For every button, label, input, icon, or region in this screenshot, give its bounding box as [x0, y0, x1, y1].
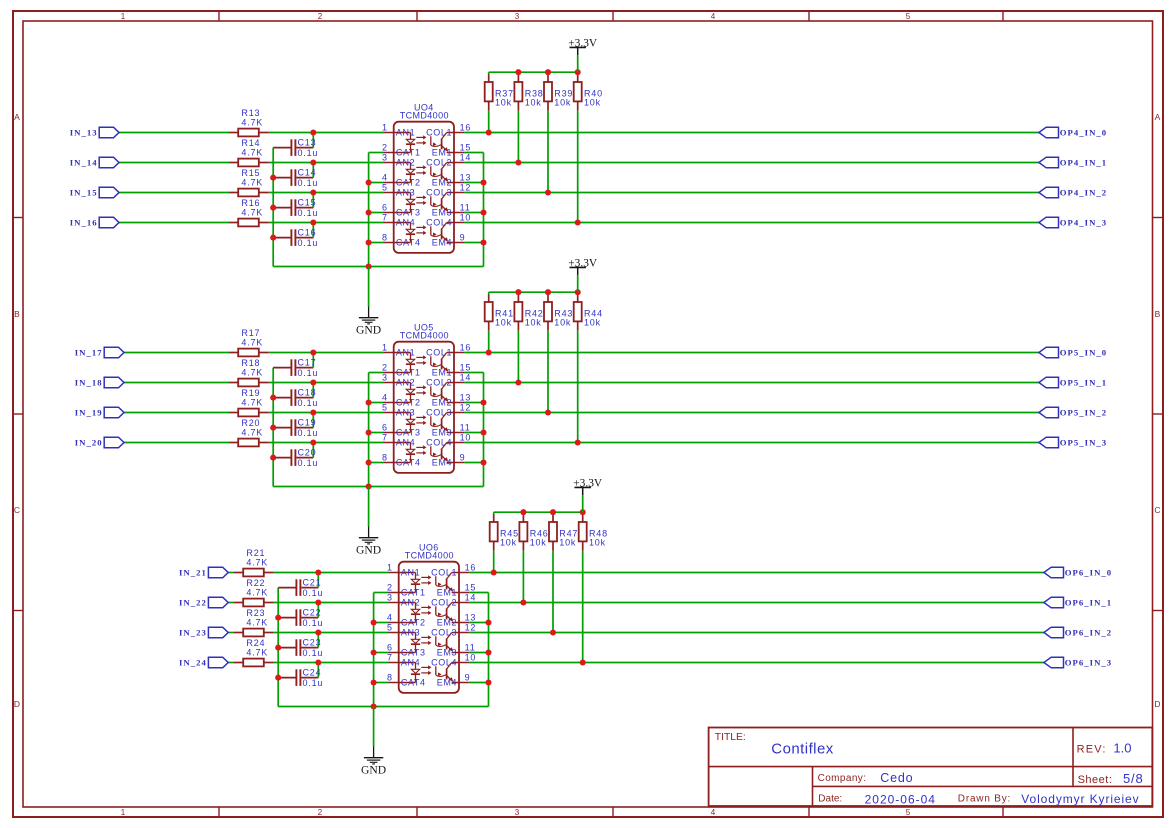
svg-text:1: 1 — [121, 808, 126, 817]
svg-text:CAT4: CAT4 — [396, 238, 421, 248]
svg-text:CAT3: CAT3 — [396, 208, 421, 218]
svg-text:EM1: EM1 — [432, 368, 452, 378]
svg-text:9: 9 — [460, 232, 466, 242]
svg-text:OP6_IN_0: OP6_IN_0 — [1065, 568, 1113, 578]
svg-text:IN_15: IN_15 — [70, 188, 98, 198]
svg-text:12: 12 — [465, 622, 477, 632]
svg-text:IN_23: IN_23 — [179, 628, 207, 638]
svg-text:4.7K: 4.7K — [246, 587, 268, 597]
svg-text:C: C — [1154, 505, 1160, 515]
svg-text:7: 7 — [382, 432, 388, 442]
svg-text:6: 6 — [382, 202, 388, 212]
svg-text:10k: 10k — [584, 318, 601, 328]
svg-text:5/8: 5/8 — [1123, 771, 1143, 786]
svg-text:0.1u: 0.1u — [303, 678, 324, 688]
svg-text:CAT1: CAT1 — [396, 148, 421, 158]
svg-text:AN4: AN4 — [396, 218, 415, 228]
svg-text:4: 4 — [382, 172, 388, 182]
svg-text:Sheet:: Sheet: — [1078, 774, 1113, 786]
svg-text:CAT3: CAT3 — [401, 648, 426, 658]
svg-text:4.7K: 4.7K — [241, 427, 263, 437]
svg-text:10k: 10k — [559, 538, 576, 548]
svg-text:OP5_IN_2: OP5_IN_2 — [1060, 408, 1108, 418]
svg-text:CAT1: CAT1 — [396, 368, 421, 378]
svg-text:4.7K: 4.7K — [246, 557, 268, 567]
svg-text:16: 16 — [460, 122, 472, 132]
svg-text:4: 4 — [711, 808, 716, 817]
svg-text:10k: 10k — [500, 538, 517, 548]
svg-text:CAT4: CAT4 — [401, 678, 426, 688]
svg-text:0.1u: 0.1u — [298, 238, 319, 248]
svg-text:COL3: COL3 — [426, 408, 452, 418]
svg-text:11: 11 — [465, 642, 476, 652]
svg-text:13: 13 — [465, 612, 477, 622]
svg-text:EM3: EM3 — [437, 648, 457, 658]
svg-text:REV:: REV: — [1077, 744, 1107, 756]
svg-text:4.7K: 4.7K — [241, 367, 263, 377]
svg-text:14: 14 — [465, 592, 477, 602]
svg-text:0.1u: 0.1u — [298, 148, 319, 158]
svg-text:10k: 10k — [589, 538, 606, 548]
svg-text:IN_16: IN_16 — [70, 218, 98, 228]
svg-text:COL2: COL2 — [426, 158, 452, 168]
svg-text:IN_17: IN_17 — [75, 348, 103, 358]
svg-text:IN_24: IN_24 — [179, 658, 207, 668]
svg-text:10k: 10k — [530, 538, 547, 548]
svg-text:2: 2 — [318, 808, 323, 817]
svg-text:Company:: Company: — [818, 773, 867, 784]
svg-text:Date:: Date: — [818, 794, 842, 805]
svg-text:10k: 10k — [495, 98, 512, 108]
svg-text:EM1: EM1 — [437, 588, 457, 598]
svg-text:4.7K: 4.7K — [241, 397, 263, 407]
svg-text:7: 7 — [387, 652, 393, 662]
svg-text:EM3: EM3 — [432, 428, 452, 438]
svg-text:CAT1: CAT1 — [401, 588, 426, 598]
svg-text:OP6_IN_3: OP6_IN_3 — [1065, 658, 1113, 668]
svg-text:CAT4: CAT4 — [396, 458, 421, 468]
svg-text:5: 5 — [906, 808, 911, 817]
svg-text:4.7K: 4.7K — [241, 147, 263, 157]
svg-text:EM2: EM2 — [437, 618, 457, 628]
svg-text:15: 15 — [460, 362, 472, 372]
svg-text:5: 5 — [382, 182, 388, 192]
svg-text:13: 13 — [460, 172, 472, 182]
svg-text:OP6_IN_2: OP6_IN_2 — [1065, 628, 1113, 638]
svg-text:Drawn By:: Drawn By: — [958, 794, 1011, 805]
svg-text:IN_19: IN_19 — [75, 408, 103, 418]
svg-text:1: 1 — [121, 12, 126, 21]
svg-text:COL4: COL4 — [426, 218, 452, 228]
svg-text:OP4_IN_3: OP4_IN_3 — [1060, 218, 1108, 228]
svg-text:EM2: EM2 — [432, 178, 452, 188]
svg-text:CAT2: CAT2 — [396, 398, 421, 408]
svg-text:9: 9 — [465, 672, 471, 682]
svg-text:AN2: AN2 — [396, 158, 415, 168]
svg-text:4.7K: 4.7K — [241, 177, 263, 187]
svg-text:C21: C21 — [303, 577, 322, 587]
svg-text:B: B — [1155, 309, 1161, 319]
svg-text:C: C — [14, 505, 20, 515]
svg-text:10k: 10k — [525, 318, 542, 328]
svg-text:11: 11 — [460, 422, 471, 432]
svg-text:9: 9 — [460, 452, 466, 462]
svg-text:2: 2 — [382, 362, 388, 372]
svg-text:10k: 10k — [495, 318, 512, 328]
svg-text:IN_22: IN_22 — [179, 598, 207, 608]
svg-text:12: 12 — [460, 182, 472, 192]
svg-text:3: 3 — [382, 372, 388, 382]
svg-text:AN3: AN3 — [396, 188, 415, 198]
svg-text:10: 10 — [460, 212, 472, 222]
svg-text:7: 7 — [382, 212, 388, 222]
svg-text:OP5_IN_0: OP5_IN_0 — [1060, 348, 1108, 358]
svg-text:Contiflex: Contiflex — [771, 740, 833, 757]
svg-text:3: 3 — [515, 12, 520, 21]
svg-text:CAT2: CAT2 — [401, 618, 426, 628]
svg-text:OP6_IN_1: OP6_IN_1 — [1065, 598, 1113, 608]
svg-text:TCMD4000: TCMD4000 — [400, 331, 449, 341]
svg-text:COL2: COL2 — [431, 598, 457, 608]
svg-text:C14: C14 — [298, 167, 317, 177]
svg-text:C13: C13 — [298, 137, 317, 147]
svg-text:13: 13 — [460, 392, 472, 402]
svg-text:COL3: COL3 — [426, 188, 452, 198]
svg-text:16: 16 — [460, 342, 472, 352]
svg-text:IN_18: IN_18 — [75, 378, 103, 388]
svg-text:10k: 10k — [525, 98, 542, 108]
svg-text:1: 1 — [382, 122, 388, 132]
svg-text:A: A — [14, 112, 20, 122]
svg-text:14: 14 — [460, 372, 472, 382]
svg-text:4.7K: 4.7K — [241, 337, 263, 347]
svg-text:EM4: EM4 — [432, 238, 452, 248]
svg-text:COL1: COL1 — [426, 348, 452, 358]
svg-text:COL4: COL4 — [426, 438, 452, 448]
svg-text:OP4_IN_2: OP4_IN_2 — [1060, 188, 1108, 198]
svg-text:10k: 10k — [554, 318, 571, 328]
svg-text:COL2: COL2 — [426, 378, 452, 388]
svg-text:D: D — [14, 699, 20, 709]
svg-text:C23: C23 — [303, 637, 322, 647]
svg-text:1: 1 — [382, 342, 388, 352]
svg-text:GND: GND — [356, 544, 381, 557]
svg-text:C15: C15 — [298, 197, 317, 207]
svg-text:D: D — [1154, 699, 1160, 709]
svg-text:C17: C17 — [298, 357, 317, 367]
svg-text:TCMD4000: TCMD4000 — [400, 111, 449, 121]
svg-text:10: 10 — [460, 432, 472, 442]
svg-text:COL4: COL4 — [431, 658, 457, 668]
svg-text:OP5_IN_1: OP5_IN_1 — [1060, 378, 1108, 388]
svg-text:10k: 10k — [584, 98, 601, 108]
svg-text:AN4: AN4 — [396, 438, 415, 448]
svg-text:C20: C20 — [298, 447, 317, 457]
svg-text:0.1u: 0.1u — [298, 368, 319, 378]
svg-text:AN4: AN4 — [401, 658, 420, 668]
svg-text:0.1u: 0.1u — [303, 588, 324, 598]
svg-text:5: 5 — [906, 12, 911, 21]
svg-text:GND: GND — [361, 764, 386, 777]
svg-text:IN_14: IN_14 — [70, 158, 98, 168]
svg-text:IN_20: IN_20 — [75, 438, 103, 448]
svg-text:AN2: AN2 — [401, 598, 420, 608]
svg-text:OP4_IN_0: OP4_IN_0 — [1060, 128, 1108, 138]
svg-text:6: 6 — [382, 422, 388, 432]
svg-text:10: 10 — [465, 652, 477, 662]
svg-text:2: 2 — [382, 142, 388, 152]
svg-text:GND: GND — [356, 324, 381, 337]
svg-text:COL1: COL1 — [426, 128, 452, 138]
svg-text:4.7K: 4.7K — [241, 117, 263, 127]
svg-text:4: 4 — [387, 612, 393, 622]
svg-text:B: B — [14, 309, 20, 319]
svg-text:3: 3 — [515, 808, 520, 817]
svg-text:4: 4 — [382, 392, 388, 402]
svg-text:0.1u: 0.1u — [298, 458, 319, 468]
svg-text:0.1u: 0.1u — [298, 208, 319, 218]
svg-text:EM4: EM4 — [432, 458, 452, 468]
svg-text:3: 3 — [382, 152, 388, 162]
svg-text:AN3: AN3 — [401, 628, 420, 638]
svg-text:8: 8 — [387, 672, 393, 682]
svg-text:OP4_IN_1: OP4_IN_1 — [1060, 158, 1108, 168]
svg-text:0.1u: 0.1u — [298, 398, 319, 408]
svg-text:2: 2 — [318, 12, 323, 21]
svg-text:2: 2 — [387, 582, 393, 592]
svg-text:AN1: AN1 — [396, 128, 415, 138]
svg-text:CAT2: CAT2 — [396, 178, 421, 188]
svg-text:EM4: EM4 — [437, 678, 457, 688]
svg-text:4.7K: 4.7K — [246, 617, 268, 627]
svg-text:4.7K: 4.7K — [241, 207, 263, 217]
svg-text:C19: C19 — [298, 417, 317, 427]
svg-text:C18: C18 — [298, 387, 317, 397]
svg-text:6: 6 — [387, 642, 393, 652]
svg-text:AN1: AN1 — [401, 568, 420, 578]
svg-text:EM2: EM2 — [432, 398, 452, 408]
svg-text:0.1u: 0.1u — [303, 618, 324, 628]
svg-text:8: 8 — [382, 232, 388, 242]
svg-text:AN1: AN1 — [396, 348, 415, 358]
svg-text:8: 8 — [382, 452, 388, 462]
svg-text:OP5_IN_3: OP5_IN_3 — [1060, 438, 1108, 448]
svg-text:CAT3: CAT3 — [396, 428, 421, 438]
svg-text:4.7K: 4.7K — [246, 647, 268, 657]
svg-text:Cedo: Cedo — [880, 771, 913, 785]
svg-text:C16: C16 — [298, 227, 317, 237]
svg-text:1: 1 — [387, 562, 393, 572]
svg-text:3: 3 — [387, 592, 393, 602]
svg-text:2020-06-04: 2020-06-04 — [865, 793, 936, 807]
svg-text:1.0: 1.0 — [1113, 741, 1131, 756]
svg-text:COL3: COL3 — [431, 628, 457, 638]
svg-text:14: 14 — [460, 152, 472, 162]
svg-text:10k: 10k — [554, 98, 571, 108]
svg-text:15: 15 — [465, 582, 477, 592]
svg-text:5: 5 — [382, 402, 388, 412]
svg-text:16: 16 — [465, 562, 477, 572]
svg-text:TCMD4000: TCMD4000 — [405, 551, 454, 561]
svg-text:5: 5 — [387, 622, 393, 632]
svg-text:AN2: AN2 — [396, 378, 415, 388]
svg-text:A: A — [1155, 112, 1161, 122]
svg-text:AN3: AN3 — [396, 408, 415, 418]
svg-text:C24: C24 — [303, 667, 322, 677]
svg-text:11: 11 — [460, 202, 471, 212]
svg-text:Volodymyr Kyrieiev: Volodymyr Kyrieiev — [1021, 792, 1139, 806]
svg-text:15: 15 — [460, 142, 472, 152]
svg-text:12: 12 — [460, 402, 472, 412]
svg-text:COL1: COL1 — [431, 568, 457, 578]
svg-text:0.1u: 0.1u — [303, 648, 324, 658]
svg-text:0.1u: 0.1u — [298, 428, 319, 438]
svg-text:EM3: EM3 — [432, 208, 452, 218]
svg-text:4: 4 — [711, 12, 716, 21]
svg-text:C22: C22 — [303, 607, 322, 617]
svg-text:IN_21: IN_21 — [179, 568, 207, 578]
svg-text:TITLE:: TITLE: — [715, 732, 746, 743]
svg-text:EM1: EM1 — [432, 148, 452, 158]
svg-text:0.1u: 0.1u — [298, 178, 319, 188]
svg-text:IN_13: IN_13 — [70, 128, 98, 138]
